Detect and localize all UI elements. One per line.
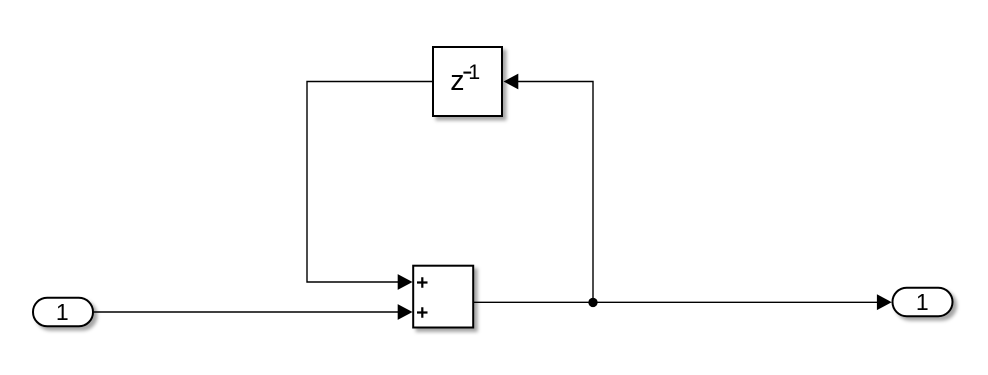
sum block plus sign port 1: [417, 277, 428, 288]
unit delay label superscript minus: [463, 72, 471, 74]
svg-text:z: z: [450, 65, 464, 97]
outport block Out1: [893, 288, 953, 317]
wire arrowhead into Out1: [877, 294, 892, 310]
junction node on output net: [588, 298, 597, 307]
svg-text:1: 1: [56, 299, 69, 325]
wire arrowhead into Sum port 1: [398, 274, 413, 290]
svg-text:1: 1: [468, 60, 480, 84]
wire In1 to Sum lower input: [94, 311, 400, 313]
wire Unit Delay output feedback to Sum upper input: [307, 82, 433, 283]
wire Sum output to Out1: [473, 301, 878, 303]
wire arrowhead into Unit Delay input: [504, 74, 519, 90]
unit delay block: [433, 47, 502, 116]
sum block Sum: [413, 266, 473, 328]
svg-text:1: 1: [916, 289, 929, 315]
inport block In1: [33, 298, 93, 327]
wire arrowhead into Sum port 2: [398, 304, 413, 320]
wire junction to Unit Delay input (vertical riser and horizontal run): [518, 82, 594, 303]
sum block plus sign port 2: [417, 307, 428, 318]
